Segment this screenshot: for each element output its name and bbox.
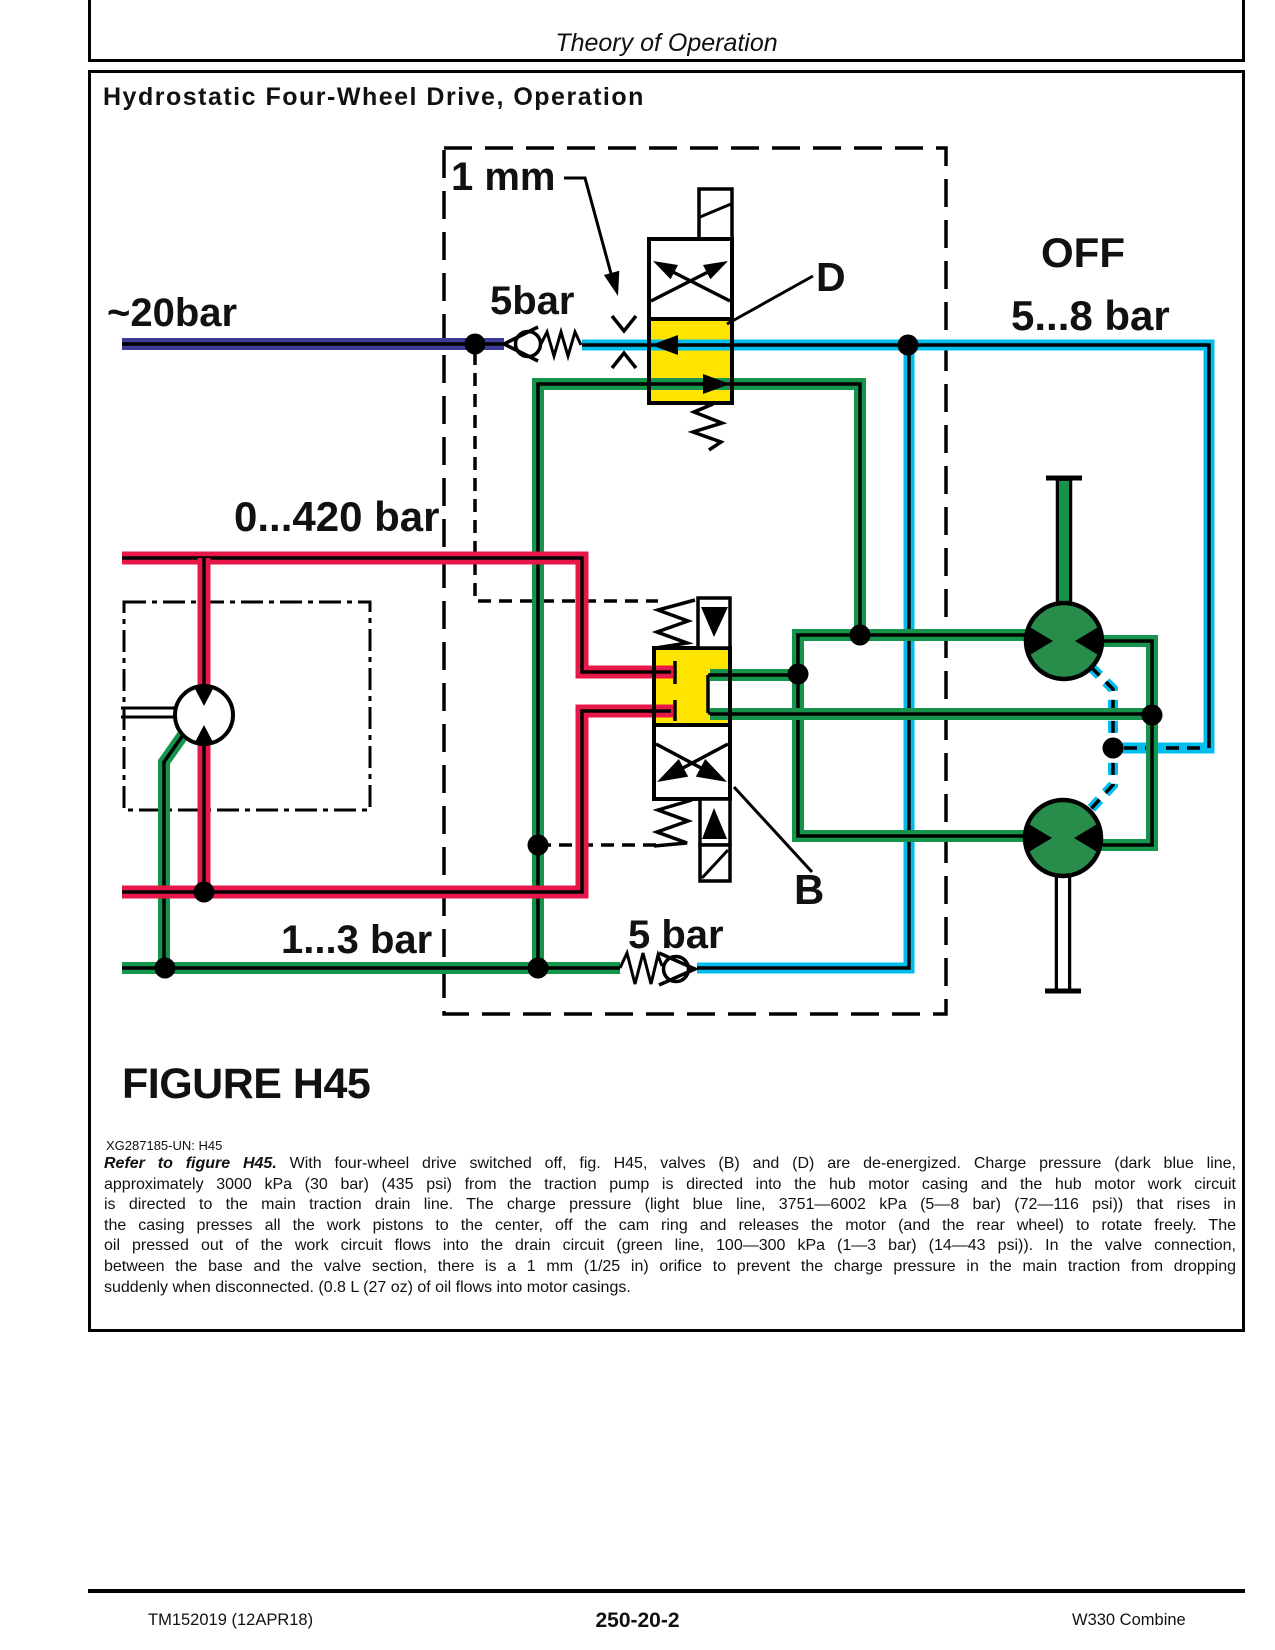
label ~20bar [107,291,237,335]
wire: green interconnect between motors [1097,641,1152,845]
motor M1 (front hub) [1026,603,1102,679]
pump shaft [121,708,176,717]
valve B bottom spring [654,800,692,846]
svg-text:1 mm: 1 mm [451,155,556,199]
node valve B upper green [788,664,809,685]
valve B crossed arrows [656,744,728,782]
valve B stubs [673,661,677,721]
wire: valve B upper green port [710,669,798,681]
valve B body fill [654,648,730,725]
label D [816,254,846,300]
valve B top spring [656,600,695,648]
body paragraph [104,1155,1236,1299]
pilot line to valve B spring (dashed) [538,843,656,847]
footer center [0,1610,1275,1631]
valve D border [649,239,732,403]
pump P1 [175,686,233,744]
label 5...8 bar [1011,292,1170,339]
wire: green loop to both motors [798,635,1030,836]
label 5 bar [628,913,724,957]
wire: motor case drain (dashed light blue) [1088,667,1113,812]
node green drain bottom [528,958,549,979]
figure label [122,1063,370,1106]
check valve CV2 5 bar [659,953,695,985]
valve B body border [654,648,730,725]
label B [794,866,824,913]
wire: red branch to pump [198,558,211,892]
valve assembly dashed enclosure [444,148,946,1014]
orifice 1 mm symbol [612,316,636,368]
section title [103,85,645,110]
node case drain [1103,738,1124,759]
node on charge line [465,334,486,355]
svg-text:5bar: 5bar [490,279,575,323]
valve D body fill [649,239,732,403]
label 1 mm [451,155,556,199]
label 0...420 bar [234,493,439,540]
image id [106,1138,222,1153]
valve B top solenoid [698,598,730,648]
valve B bottom solenoid [700,799,730,881]
valve D flow arrow left (charge) [651,335,678,355]
svg-text:1...3 bar: 1...3 bar [281,918,432,962]
node pump drain [155,958,176,979]
svg-text:B: B [794,866,824,913]
pilot line from node to valve D area (dashed) [475,352,658,601]
svg-text:5 bar: 5 bar [628,913,724,957]
valve D spring [693,404,722,450]
wire: light blue line to 5bar valve (down + bottom) [697,345,909,968]
node red bottom [194,882,215,903]
wire: green drain line 1...3 bar [122,962,620,974]
footer left [148,1612,313,1629]
motor M2 (rear hub) [1025,800,1101,876]
motor M1 (front hub) shaft [1046,478,1082,606]
label 5bar [490,279,575,323]
valve B lower section [654,725,730,799]
main frame [88,70,1245,1332]
node on light blue line top [898,335,919,356]
wire: charge pressure line ~20bar (dark blue) [122,338,505,350]
wire: red pressure line 0...420 bar top [122,558,673,672]
label 1 mm leader arrow [564,178,619,296]
label B leader [734,787,812,872]
node pilot green [528,835,549,856]
check valve CV1 5bar [504,327,541,361]
header frame [88,0,1245,62]
footer right [1072,1612,1192,1629]
label OFF [1041,229,1125,276]
valve D solenoid [699,189,732,239]
svg-text:0...420 bar: 0...420 bar [234,493,439,540]
svg-text:OFF: OFF [1041,229,1125,276]
node motor interconnect [1142,705,1163,726]
header title [88,31,1245,56]
node drain to valve D [850,625,871,646]
svg-text:~20bar: ~20bar [107,291,237,335]
svg-text:5...8 bar: 5...8 bar [1011,292,1170,339]
wire: green drain through valve D [538,384,860,968]
wire: pump case drain green [164,735,183,968]
footer rule [88,1589,1245,1593]
svg-text:D: D [816,254,846,300]
valve D crossed arrows [651,261,730,301]
valve D flow arrow right (drain) [703,374,730,394]
label D leader [727,276,813,324]
check valve CV1 5bar spring [541,332,581,356]
wire: red pressure line bottom [122,711,673,892]
wire: light blue charge line through valve D to right [582,345,1209,748]
wire: valve B lower green port to motors [710,708,1152,720]
label 1...3 bar [281,918,432,962]
motor M2 (rear hub) shaft [1045,874,1081,991]
check valve CV2 5 bar spring [620,953,662,984]
pump housing dash-dot box [124,602,370,810]
